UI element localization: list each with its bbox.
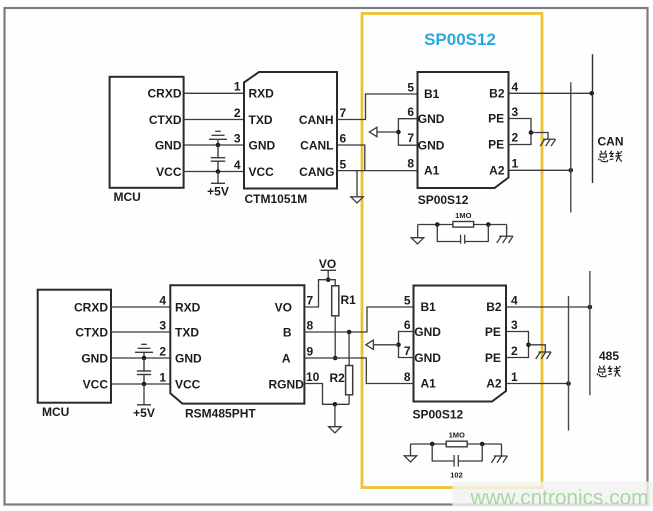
svg-text:GND: GND — [418, 112, 445, 126]
svg-text:GND: GND — [81, 351, 108, 365]
wire PE to chassis — [531, 133, 548, 140]
svg-text:9: 9 — [307, 344, 314, 358]
svg-text:B1: B1 — [421, 300, 437, 314]
svg-text:A2: A2 — [489, 164, 505, 178]
node dot GND/C1 — [216, 143, 221, 148]
chassis ground PE top — [540, 139, 555, 146]
svg-text:8: 8 — [307, 318, 314, 332]
left arrow connector top — [369, 127, 377, 136]
wire to arrow — [377, 131, 398, 133]
svg-text:TXD: TXD — [249, 113, 273, 127]
pin numbers 1-4 CTM left — [234, 80, 241, 172]
svg-text:GND: GND — [414, 351, 441, 365]
wire net1 to chassis — [506, 225, 508, 237]
watermark strip — [453, 482, 653, 508]
svg-text:CTXD: CTXD — [149, 113, 182, 127]
resistor 1MO top — [453, 222, 474, 228]
surge protector SP00S12 top — [418, 72, 509, 188]
svg-text:A2: A2 — [486, 377, 502, 391]
wire VCC — [184, 171, 244, 173]
wire net2 to chassis — [501, 444, 503, 456]
svg-text:VCC: VCC — [175, 377, 201, 391]
node dot B/R2 — [347, 330, 352, 335]
node dot RGND — [333, 402, 338, 407]
svg-text:3: 3 — [512, 105, 519, 119]
svg-text:CANG: CANG — [299, 165, 334, 179]
node dot PE bracket — [529, 130, 534, 135]
node dot B2 bus — [590, 91, 595, 96]
node dot net1 left — [435, 222, 440, 227]
svg-text:MCU: MCU — [114, 190, 141, 204]
MCU U1 box — [110, 77, 184, 204]
wire CANG / A1 line — [337, 170, 418, 172]
485 bus line 1 — [568, 296, 570, 431]
pin numbers 4-1 chip2 right — [511, 294, 518, 385]
svg-text:2: 2 — [234, 106, 241, 120]
svg-text:CRXD: CRXD — [147, 87, 181, 101]
wire B dot to R2 — [348, 332, 350, 366]
GND bracket chip1 — [398, 119, 417, 146]
svg-text:CANH: CANH — [299, 113, 334, 127]
CAN transceiver CTM1051M — [244, 72, 337, 206]
svg-text:7: 7 — [307, 293, 314, 307]
svg-text:GND: GND — [155, 138, 182, 152]
wire CANL to A1 — [337, 145, 365, 171]
wire R2 bottom — [348, 395, 350, 405]
wire CTXD2 — [111, 331, 170, 333]
svg-text:R2: R2 — [330, 371, 346, 385]
RS485 transceiver RSM485PHT — [170, 285, 304, 420]
svg-text:GND: GND — [414, 325, 441, 339]
svg-text:A1: A1 — [424, 164, 440, 178]
svg-text:RSM485PHT: RSM485PHT — [185, 406, 256, 420]
svg-text:5: 5 — [340, 158, 347, 172]
wire GND — [184, 144, 244, 146]
wire to arrow 2 — [374, 344, 399, 346]
svg-text:102: 102 — [450, 471, 463, 480]
svg-text:6: 6 — [407, 105, 414, 119]
svg-text:485: 485 — [599, 349, 619, 363]
wire GND2 — [111, 357, 170, 359]
svg-text:8: 8 — [407, 157, 414, 171]
svg-text:CTXD: CTXD — [75, 325, 108, 339]
pin numbers 7,8,9,10 RSM right — [306, 293, 320, 384]
node dot PE bracket 2 — [526, 343, 531, 348]
pin numbers 7,6,5 CTM right — [340, 106, 347, 172]
CAN bus line 1 — [570, 82, 572, 212]
svg-text:+5V: +5V — [207, 185, 229, 199]
wire CRXD to RXD — [184, 92, 244, 94]
chassis ground net2 — [491, 456, 507, 463]
svg-text:VCC: VCC — [83, 377, 109, 391]
wire A2 to 485 bus — [506, 383, 569, 385]
svg-text:A: A — [282, 351, 291, 365]
svg-text:2: 2 — [511, 344, 518, 358]
svg-text:6: 6 — [404, 318, 411, 332]
svg-text:2: 2 — [512, 131, 519, 145]
wire RGND path — [304, 384, 349, 405]
wire R1 to A line — [334, 316, 336, 358]
svg-text:B: B — [283, 325, 292, 339]
svg-text:CANL: CANL — [300, 138, 333, 152]
svg-text:4: 4 — [511, 294, 518, 308]
PE bracket chip2 — [506, 332, 529, 358]
svg-text:GND: GND — [175, 351, 202, 365]
svg-text:PE: PE — [488, 112, 504, 126]
node dot A2 bus 2 — [566, 381, 571, 386]
svg-text:A1: A1 — [421, 377, 437, 391]
svg-text:CAN: CAN — [598, 135, 624, 149]
resistor 1MO bottom — [446, 441, 467, 447]
wire CANG ground branch — [356, 171, 358, 197]
chassis ground net1 — [497, 236, 513, 243]
svg-text:5: 5 — [407, 81, 414, 95]
svg-text:4: 4 — [159, 293, 166, 307]
ground stub RGND — [334, 404, 336, 426]
485 bus line 2 — [589, 271, 591, 395]
node dot VO — [326, 277, 331, 282]
node dot net2 right — [480, 442, 485, 447]
svg-text:4: 4 — [234, 158, 241, 172]
svg-text:1: 1 — [159, 370, 166, 384]
svg-text:SP00S12: SP00S12 — [418, 193, 469, 207]
svg-text:7: 7 — [340, 106, 347, 120]
svg-text:RXD: RXD — [249, 87, 275, 101]
node dot B2 bus 2 — [588, 305, 593, 310]
capacitor C2 — [137, 358, 151, 384]
svg-text:B2: B2 — [489, 87, 505, 101]
wire PE to chassis 2 — [529, 345, 546, 352]
+5V terminal — [207, 172, 229, 199]
svg-text:SP00S12: SP00S12 — [413, 408, 464, 422]
svg-text:3: 3 — [159, 318, 166, 332]
earth symbol above GND (top decoupling) — [209, 131, 227, 145]
node dot GND2/C2 — [142, 356, 147, 361]
resistor R2 — [346, 366, 353, 395]
svg-text:R1: R1 — [341, 293, 357, 307]
svg-text:VCC: VCC — [249, 165, 275, 179]
svg-text:RXD: RXD — [175, 300, 201, 314]
svg-text:5: 5 — [404, 294, 411, 308]
ground arrow RGND — [329, 427, 341, 433]
+5V terminal 2 — [133, 384, 155, 420]
svg-text:B1: B1 — [424, 87, 440, 101]
wire B2 to CAN bus — [509, 92, 592, 94]
SP00S12 highlight box — [362, 14, 542, 488]
svg-text:SP00S12: SP00S12 — [424, 30, 496, 49]
svg-text:8: 8 — [404, 370, 411, 384]
svg-text:www.cntronics.com: www.cntronics.com — [470, 487, 649, 510]
svg-text:3: 3 — [234, 131, 241, 145]
wire CRXD2 — [111, 306, 170, 308]
earth symbol above GND2 — [135, 344, 153, 358]
wire VO pin to node — [304, 280, 328, 307]
svg-text:GND: GND — [418, 138, 445, 152]
zongxian glyphs CAN — [599, 151, 623, 162]
svg-text:CTM1051M: CTM1051M — [245, 192, 308, 206]
svg-text:CRXD: CRXD — [74, 300, 108, 314]
svg-text:2: 2 — [159, 344, 166, 358]
svg-text:10: 10 — [306, 370, 320, 384]
MCU U2 box — [38, 290, 111, 419]
svg-text:1MO: 1MO — [449, 431, 465, 440]
wire B to B1 — [304, 307, 413, 332]
surge protector SP00S12 bottom — [414, 286, 507, 402]
pin numbers 4-1 chip1 right — [512, 80, 519, 171]
svg-text:PE: PE — [485, 351, 501, 365]
zongxian glyphs 485 — [597, 366, 621, 377]
CAN bus line 2 — [592, 54, 594, 183]
svg-text:1: 1 — [511, 370, 518, 384]
ground arrow CANG — [351, 197, 363, 203]
node dot R1/A — [333, 356, 338, 361]
wire CANH to B1 — [337, 94, 418, 120]
pin numbers 4,3,2,1 RSM left — [159, 293, 166, 384]
svg-text:7: 7 — [407, 131, 414, 145]
svg-text:3: 3 — [511, 318, 518, 332]
VO terminal — [319, 257, 336, 280]
node dot net1 right — [486, 222, 491, 227]
svg-text:PE: PE — [488, 137, 504, 151]
node dot net2 left — [430, 442, 435, 447]
ground arrow net1 — [411, 238, 423, 244]
ground stub net1 — [417, 225, 419, 238]
wire A to A1 — [304, 358, 413, 384]
wire VCC2 — [111, 383, 170, 385]
pin numbers 5-8 chip1 left — [407, 81, 414, 171]
chassis ground PE bottom — [536, 352, 551, 359]
svg-text:GND: GND — [249, 138, 276, 152]
left arrow connector bottom — [366, 340, 374, 349]
wire node to R1 — [328, 280, 335, 286]
svg-text:VO: VO — [275, 300, 292, 314]
svg-text:RGND: RGND — [268, 377, 304, 391]
node dot A2 bus — [569, 168, 574, 173]
svg-text:6: 6 — [340, 132, 347, 146]
pin numbers 5-8 chip2 left — [404, 294, 411, 385]
svg-text:+5V: +5V — [133, 406, 155, 420]
node dot GND bracket 2 — [396, 343, 401, 348]
node dot GND bracket — [396, 130, 401, 135]
svg-text:7: 7 — [404, 344, 411, 358]
capacitor loop net2 — [432, 444, 482, 467]
svg-text:1: 1 — [234, 80, 241, 94]
wire B2 to 485 bus — [506, 306, 590, 308]
resistor R1 — [332, 286, 339, 316]
wire net1 main — [418, 224, 507, 226]
svg-text:1MO: 1MO — [455, 211, 471, 220]
GND bracket chip2 — [399, 332, 414, 358]
ground arrow net2 — [404, 456, 416, 462]
svg-text:1: 1 — [512, 157, 519, 171]
capacitor C1 — [211, 145, 225, 172]
wire net2 main — [411, 443, 502, 445]
svg-text:TXD: TXD — [175, 325, 199, 339]
svg-text:VO: VO — [319, 257, 336, 271]
svg-text:4: 4 — [512, 80, 519, 94]
svg-text:MCU: MCU — [42, 405, 69, 419]
wire CTXD to TXD — [184, 119, 244, 121]
capacitor loop net1 — [437, 225, 488, 244]
wire A2 to CAN bus — [509, 169, 571, 171]
svg-text:VCC: VCC — [156, 165, 182, 179]
ground stub net2 — [410, 444, 412, 456]
svg-text:B2: B2 — [486, 300, 502, 314]
svg-text:PE: PE — [485, 325, 501, 339]
node dot VCC2/C2 — [142, 382, 147, 387]
node dot VCC/C1 — [216, 169, 221, 174]
PE bracket chip1 — [509, 119, 532, 145]
